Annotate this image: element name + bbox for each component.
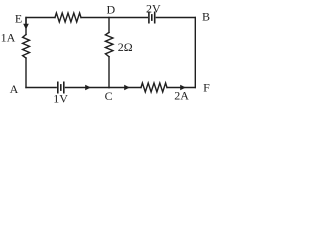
svg-text:2V: 2V: [146, 2, 161, 16]
wire: top-left segment from node E to resistor R1: [26, 17, 55, 19]
svg-text:F: F: [203, 81, 210, 95]
battery 2V right tall plate: [154, 12, 156, 22]
svg-text:2A: 2A: [174, 89, 189, 103]
current arrow 2A pointing right before node F: [180, 85, 186, 91]
resistor (bottom side, between C and F): [141, 83, 167, 92]
wire: battery 2V to node B: [156, 17, 195, 19]
svg-text:C: C: [105, 89, 113, 103]
resistor (left branch, vertical): [23, 35, 30, 59]
current arrow pointing right between battery 1V and C: [85, 85, 91, 91]
battery 2V left tall plate: [148, 12, 150, 22]
wire: node C to bottom resistor: [109, 87, 141, 89]
svg-text:1V: 1V: [53, 92, 68, 106]
wire: right side from B down to F: [194, 18, 196, 88]
resistor 2ohm (middle branch, vertical): [105, 32, 113, 56]
wire: battery 1V to node C: [66, 87, 110, 89]
battery 1V left tall plate: [57, 82, 59, 92]
svg-text:2Ω: 2Ω: [118, 40, 133, 54]
wire: left resistor down to node A: [25, 58, 27, 88]
resistor R1 (top side, between E and D): [55, 13, 81, 22]
current arrow pointing right after node C: [124, 85, 130, 91]
wire: resistor 2ohm down to node C: [108, 57, 110, 88]
wire: middle branch from D down to resistor 2ohm: [108, 18, 110, 33]
svg-text:A: A: [10, 82, 19, 96]
battery 2V middle short plate: [151, 15, 153, 20]
svg-text:E: E: [15, 12, 22, 26]
wire: resistor R1 to node D: [81, 17, 147, 19]
svg-text:1A: 1A: [1, 31, 16, 45]
wire: left side from E down to left resistor: [25, 18, 27, 35]
svg-text:B: B: [202, 10, 210, 24]
battery 1V middle short plate: [60, 85, 62, 90]
wire: bottom from A to battery 1V: [26, 87, 56, 89]
battery 1V right tall plate: [63, 82, 65, 92]
current arrow 1A pointing down on left branch: [25, 18, 27, 25]
wire: bottom resistor to node F: [167, 87, 195, 89]
svg-text:D: D: [106, 3, 115, 17]
